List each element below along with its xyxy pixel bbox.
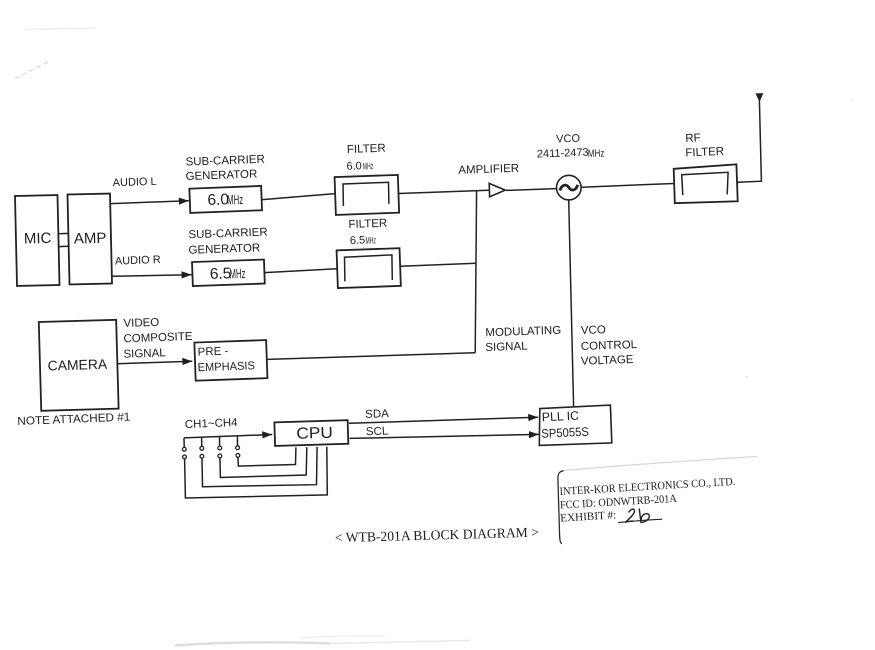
- svg-text:VIDEO: VIDEO: [123, 317, 159, 330]
- svg-text:CONTROL: CONTROL: [581, 339, 638, 353]
- svg-text:SUB-CARRIER: SUB-CARRIER: [185, 154, 265, 169]
- block CAMERA: [39, 320, 119, 411]
- svg-text:GENERATOR: GENERATOR: [188, 242, 260, 256]
- label FILTER 6.0MHz: [346, 143, 386, 173]
- label SUB-CARRIER GENERATOR (bottom): [188, 227, 268, 257]
- svg-text:AUDIO R: AUDIO R: [115, 254, 161, 268]
- svg-text:AMPLIFIER: AMPLIFIER: [458, 163, 519, 177]
- label VCO CONTROL VOLTAGE: [581, 324, 638, 368]
- wire RF filter to antenna: [738, 101, 762, 183]
- wire switch stub 2: [201, 437, 203, 446]
- wire VCO to RF filter: [581, 184, 674, 188]
- wire filter2 to junction: [400, 263, 476, 266]
- block sub-carrier generator 6.5MHz: [192, 260, 265, 286]
- svg-text:VOLTAGE: VOLTAGE: [581, 354, 634, 368]
- wire SCL (arrow): [350, 426, 539, 439]
- wire 6.0MHz generator to filter1: [263, 194, 336, 200]
- svg-text:EXHIBIT #:: EXHIBIT #:: [560, 509, 617, 524]
- label RF FILTER: [685, 132, 724, 159]
- block RF filter: [674, 164, 738, 203]
- svg-text:MHz: MHz: [227, 192, 244, 208]
- switch SW4 contacts: [236, 446, 240, 457]
- wire summing junction vertical: [475, 190, 476, 352]
- svg-text:COMPOSITE: COMPOSITE: [123, 331, 193, 345]
- label CH1~CH4: [185, 417, 239, 431]
- svg-text:VCO: VCO: [556, 133, 581, 146]
- label AMPLIFIER: [458, 163, 519, 177]
- svg-text:MHz: MHz: [229, 266, 246, 282]
- switch SW3 contacts: [218, 446, 222, 458]
- wire switch 4 return to CPU: [238, 447, 296, 466]
- label SUB-CARRIER GENERATOR (top): [185, 154, 265, 183]
- wire VCO control voltage vertical: [569, 200, 574, 406]
- svg-text:AUDIO L: AUDIO L: [112, 176, 156, 190]
- svg-text:CAMERA: CAMERA: [47, 356, 108, 374]
- label AUDIO R: [115, 254, 161, 268]
- wire switch stub 1: [183, 438, 185, 447]
- stamp border: [558, 457, 757, 544]
- amplifier U1 triangle: [489, 183, 505, 196]
- caption WTB-201A BLOCK DIAGRAM: [335, 525, 540, 546]
- svg-text:SUB-CARRIER: SUB-CARRIER: [188, 227, 268, 242]
- block sub-carrier generator 6.0MHz: [189, 186, 262, 213]
- wire filter1 to amplifier: [399, 190, 489, 193]
- stamp text FCC ID: [560, 493, 677, 512]
- wire channel feed to CPU (arrow): [184, 435, 272, 438]
- wire switch stub 3: [219, 437, 221, 446]
- label VIDEO COMPOSITE SIGNAL: [123, 317, 193, 361]
- svg-text:SIGNAL: SIGNAL: [123, 347, 166, 360]
- wire 6.5MHz generator to filter2: [264, 269, 337, 273]
- label VCO 2411-2473MHz: [537, 133, 605, 161]
- stamp text EXHIBIT: [560, 509, 617, 524]
- wire switch 2 return to CPU: [202, 447, 317, 487]
- block MIC: [15, 195, 60, 286]
- switch SW2 contacts: [200, 446, 204, 458]
- switch SW1 contacts: [182, 447, 186, 458]
- svg-text:SCL: SCL: [366, 426, 389, 439]
- svg-text:SP5055S: SP5055S: [541, 425, 589, 441]
- block AMP: [67, 194, 112, 285]
- wire amplifier to VCO: [506, 189, 557, 191]
- svg-text:AMP: AMP: [74, 230, 107, 248]
- svg-text:MIC: MIC: [24, 230, 52, 248]
- svg-text:CH1~CH4: CH1~CH4: [185, 417, 239, 431]
- svg-text:MODULATING: MODULATING: [485, 325, 561, 340]
- handwritten exhibit number 2b: [618, 509, 662, 523]
- block PLL IC SP5055S: [539, 405, 612, 445]
- wire PRE-EMPHASIS to junction: [268, 353, 476, 360]
- svg-text:NOTE ATTACHED #1: NOTE ATTACHED #1: [17, 411, 130, 428]
- svg-text:6.5: 6.5: [350, 234, 366, 247]
- wire CAMERA to PRE-EMPHASIS (arrow): [117, 361, 192, 364]
- wire AMP to 6.5MHz generator (arrow): [111, 275, 192, 277]
- svg-text:MHz: MHz: [588, 147, 605, 160]
- svg-text:2411-2473: 2411-2473: [537, 147, 589, 161]
- wire AMP to 6.0MHz generator (arrow): [111, 201, 189, 204]
- svg-text:PRE -: PRE -: [197, 346, 228, 359]
- svg-text:FILTER: FILTER: [685, 146, 724, 160]
- antenna arrow: [756, 94, 762, 101]
- svg-text:< WTB-201A BLOCK DIAGRAM >: < WTB-201A BLOCK DIAGRAM >: [335, 525, 540, 546]
- block CPU: [274, 420, 348, 446]
- stamp text INTER-KOR: [559, 476, 736, 498]
- label AUDIO L: [112, 176, 156, 190]
- block filter F1 6.0MHz: [335, 175, 400, 215]
- wire SDA (arrow): [349, 408, 538, 423]
- svg-text:6.0: 6.0: [346, 160, 362, 173]
- svg-text:VCO: VCO: [581, 324, 606, 337]
- svg-text:RF: RF: [685, 132, 701, 145]
- svg-text:SDA: SDA: [365, 408, 389, 421]
- svg-text:MHz: MHz: [363, 161, 374, 172]
- svg-text:FILTER: FILTER: [348, 218, 387, 231]
- wire MIC-AMP links: [58, 233, 68, 246]
- wire switch 1 return to CPU: [185, 447, 328, 498]
- svg-text:MHz: MHz: [365, 235, 376, 246]
- wire switch stub 4: [236, 436, 238, 446]
- wire switch 3 return to CPU: [220, 447, 307, 477]
- svg-text:FILTER: FILTER: [347, 143, 386, 156]
- oscillator VCO circle: [557, 175, 582, 200]
- svg-text:PLL IC: PLL IC: [542, 409, 580, 425]
- label MODULATING SIGNAL: [485, 325, 561, 354]
- svg-text:CPU: CPU: [296, 425, 333, 443]
- label NOTE ATTACHED #1: [17, 411, 130, 428]
- svg-text:GENERATOR: GENERATOR: [185, 169, 257, 183]
- svg-text:EMPHASIS: EMPHASIS: [197, 360, 255, 374]
- block PRE-EMPHASIS: [194, 340, 267, 381]
- block filter F2 6.5MHz: [337, 248, 401, 288]
- label FILTER 6.5MHz: [348, 218, 387, 247]
- svg-text:SIGNAL: SIGNAL: [485, 341, 528, 354]
